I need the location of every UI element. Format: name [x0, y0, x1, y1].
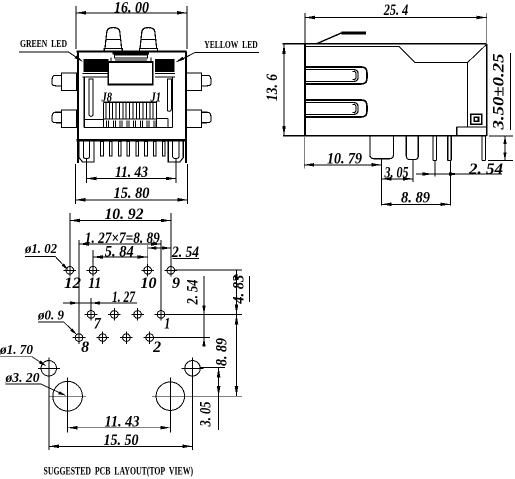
svg-text:YELLOW LED: YELLOW LED [204, 39, 258, 51]
svg-text:11. 43: 11. 43 [115, 164, 148, 181]
svg-text:8: 8 [81, 339, 89, 356]
svg-text:1. 27: 1. 27 [112, 289, 136, 306]
svg-text:15. 50: 15. 50 [104, 432, 139, 449]
svg-text:10. 92: 10. 92 [105, 206, 144, 223]
svg-text:5. 84: 5. 84 [105, 244, 134, 261]
svg-text:3. 05: 3. 05 [198, 401, 215, 427]
svg-text:2: 2 [152, 339, 161, 356]
svg-text:4. 83: 4. 83 [231, 274, 248, 304]
svg-text:ø1. 02: ø1. 02 [24, 241, 57, 256]
svg-text:3.50±0.25: 3.50±0.25 [491, 53, 508, 131]
svg-text:16. 00: 16. 00 [114, 0, 149, 16]
svg-text:13. 6: 13. 6 [264, 74, 281, 101]
svg-text:SUGGESTED PCB LAYOUT(TOP VI: SUGGESTED PCB LAYOUT(TOP VIEW) [44, 464, 194, 478]
svg-text:ø0. 9: ø0. 9 [37, 307, 64, 322]
svg-text:12: 12 [64, 275, 81, 292]
svg-text:ø3. 20: ø3. 20 [5, 370, 40, 385]
svg-text:ø1. 70: ø1. 70 [0, 342, 33, 357]
svg-text:3. 05: 3. 05 [384, 165, 409, 182]
svg-text:15. 80: 15. 80 [114, 185, 150, 202]
svg-text:GREEN LED: GREEN LED [20, 38, 67, 50]
svg-text:10. 79: 10. 79 [327, 150, 362, 167]
svg-text:1: 1 [164, 316, 170, 333]
svg-text:9: 9 [172, 275, 180, 292]
svg-text:11: 11 [88, 275, 101, 292]
svg-text:J8: J8 [101, 91, 112, 106]
svg-text:8. 89: 8. 89 [401, 190, 430, 207]
svg-text:25. 4: 25. 4 [383, 2, 409, 19]
svg-text:10: 10 [141, 275, 157, 292]
svg-text:7: 7 [94, 316, 102, 333]
svg-text:J1: J1 [150, 91, 161, 106]
svg-text:11. 43: 11. 43 [105, 413, 140, 430]
svg-text:2. 54: 2. 54 [468, 161, 504, 178]
svg-text:8. 89: 8. 89 [214, 338, 231, 366]
svg-text:2. 54: 2. 54 [185, 279, 202, 305]
